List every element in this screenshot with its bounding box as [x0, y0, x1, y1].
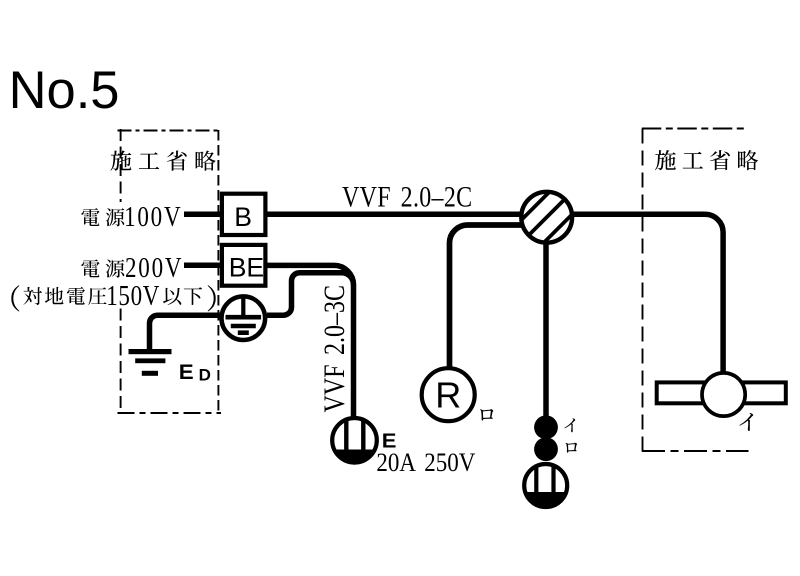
label イ (switch): [565, 418, 576, 432]
ground symbol ED: [129, 349, 172, 376]
left dashed box (施工省略 area): [118, 129, 222, 414]
label 電源100V: [81, 208, 124, 226]
label イ (fixture): [739, 413, 753, 431]
svg-text:No.5: No.5: [9, 61, 120, 120]
label 電源200V: [81, 259, 124, 277]
label 施工省略 (right): [655, 150, 758, 170]
BE output wire down to 20A outlet: [267, 265, 354, 417]
svg-text:B: B: [234, 202, 252, 232]
wire: earth terminal to ground: [150, 315, 223, 350]
wire: earth terminal loop to BE cable: [267, 273, 354, 316]
svg-text:BE: BE: [229, 252, 264, 282]
main wire VVF 2.0-2C : B to lamp fixture: [267, 214, 723, 371]
wire 100V lead: [184, 212, 220, 218]
switch ロ: [534, 437, 558, 461]
wire junction to switches: [543, 240, 549, 418]
breaker BE: [222, 245, 266, 286]
junction box (VVF joint box): [507, 178, 586, 257]
svg-text:20A 250V: 20A 250V: [376, 449, 475, 478]
wire 200V lead: [184, 263, 220, 269]
right dashed box (施工省略 area): [642, 129, 749, 453]
svg-text:150V: 150V: [106, 280, 160, 312]
svg-text:E: E: [179, 359, 194, 384]
svg-text:D: D: [199, 365, 211, 384]
label ロ (switch): [566, 443, 578, 453]
earth terminal circle ED: [222, 296, 266, 340]
switch イ: [534, 415, 558, 439]
label 施工省略 (left): [111, 151, 216, 171]
fluorescent lamp fixture: [657, 373, 786, 416]
breaker B: [222, 194, 266, 235]
svg-text:VVF 2.0–2C: VVF 2.0–2C: [342, 180, 472, 213]
label ロ (R): [480, 409, 493, 421]
svg-text:VVF 2.0–3C: VVF 2.0–3C: [318, 285, 351, 412]
branch wire junction to R: [450, 225, 531, 367]
room air-conditioner R: [422, 368, 475, 421]
svg-text:R: R: [435, 374, 461, 415]
ceiling outlet symbol (bottom): [524, 464, 567, 507]
svg-text:100V: 100V: [124, 201, 182, 233]
label（対地電圧150V以下）: [11, 285, 215, 311]
20A 250V outlet with earth: [332, 418, 377, 463]
